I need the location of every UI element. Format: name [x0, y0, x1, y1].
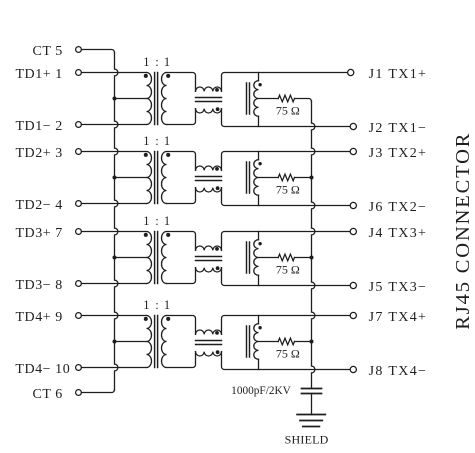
svg-text:TD3− 8: TD3− 8 [15, 278, 62, 293]
svg-text:1: 1 [143, 134, 149, 148]
svg-text:CT 6: CT 6 [32, 387, 62, 402]
svg-text:75 Ω: 75 Ω [276, 183, 300, 197]
svg-text:1: 1 [143, 55, 149, 69]
svg-text:J5 TX3−: J5 TX3− [369, 280, 428, 295]
svg-text:1: 1 [164, 55, 170, 69]
svg-text:1: 1 [164, 214, 170, 228]
svg-text::: : [155, 134, 158, 148]
svg-text::: : [155, 214, 158, 228]
svg-text:1000pF/2KV: 1000pF/2KV [231, 385, 291, 397]
svg-text:J6 TX2−: J6 TX2− [369, 200, 428, 215]
svg-text:TD1− 2: TD1− 2 [15, 119, 62, 134]
svg-text:1: 1 [143, 214, 149, 228]
svg-text::: : [155, 55, 158, 69]
svg-text:CT 5: CT 5 [32, 44, 62, 59]
svg-text:TD4+ 9: TD4+ 9 [15, 310, 62, 325]
svg-text:TD3+ 7: TD3+ 7 [15, 226, 62, 241]
svg-text:TD2+ 3: TD2+ 3 [15, 146, 62, 161]
svg-text:TD2− 4: TD2− 4 [15, 198, 62, 213]
svg-text:J3 TX2+: J3 TX2+ [369, 146, 428, 161]
svg-text:75 Ω: 75 Ω [276, 263, 300, 277]
svg-text:TD1+ 1: TD1+ 1 [15, 67, 62, 82]
svg-text::: : [155, 298, 158, 312]
svg-text:J8 TX4−: J8 TX4− [369, 364, 428, 379]
svg-text:J4 TX3+: J4 TX3+ [369, 226, 428, 241]
svg-text:1: 1 [143, 298, 149, 312]
svg-text:1: 1 [164, 134, 170, 148]
svg-text:J7 TX4+: J7 TX4+ [369, 310, 428, 325]
svg-text:J1 TX1+: J1 TX1+ [369, 67, 428, 82]
svg-text:75 Ω: 75 Ω [276, 347, 300, 361]
svg-text:TD4− 10: TD4− 10 [15, 362, 70, 377]
svg-text:1: 1 [164, 298, 170, 312]
svg-text:J2 TX1−: J2 TX1− [369, 121, 428, 136]
svg-text:75 Ω: 75 Ω [276, 104, 300, 118]
svg-text:SHIELD: SHIELD [285, 433, 329, 447]
svg-text:RJ45 CONNECTOR: RJ45 CONNECTOR [452, 132, 474, 330]
